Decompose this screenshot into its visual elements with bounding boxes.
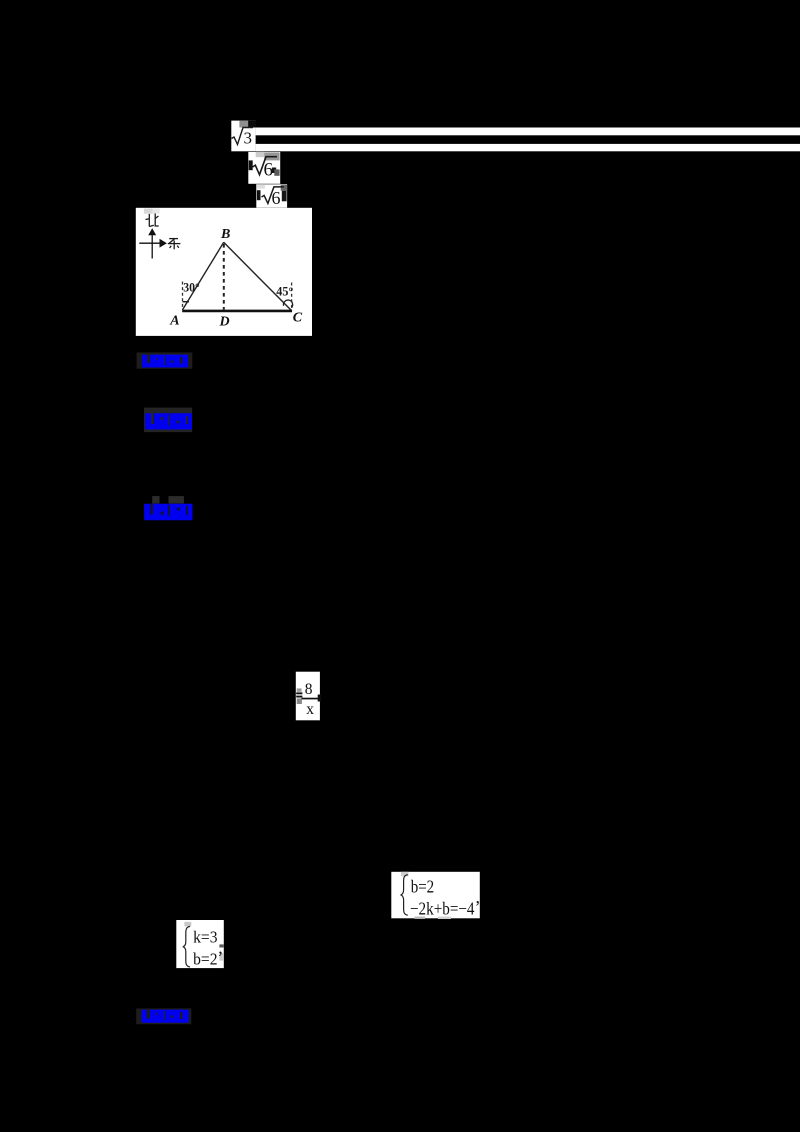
compass horizontal arrow (east) xyxy=(139,239,167,248)
angle arc at C xyxy=(283,300,292,308)
blue label 1 dianping xyxy=(137,352,193,368)
svg-text:A: A xyxy=(169,314,179,329)
compass character Bei (north) xyxy=(146,214,159,227)
svg-text:k=3: k=3 xyxy=(193,928,217,947)
triangle side BC xyxy=(224,242,292,311)
svg-text:45°: 45° xyxy=(276,284,293,298)
svg-text:,: , xyxy=(218,938,223,958)
svg-text:6: 6 xyxy=(272,188,281,208)
compass vertical arrow (north) xyxy=(148,228,156,258)
svg-text:D: D xyxy=(219,314,230,329)
svg-text:b=2: b=2 xyxy=(193,949,217,968)
formula image sqrt(6)+ white box xyxy=(248,152,280,184)
svg-text:b=2: b=2 xyxy=(411,877,435,897)
svg-text:,: , xyxy=(476,887,481,907)
angle mark at A xyxy=(183,301,190,303)
triangle side AB xyxy=(182,242,223,310)
svg-text:3: 3 xyxy=(244,129,253,148)
white strip 2 (long fraction bar) xyxy=(256,144,800,151)
formula image sqrt(6) white box (second) xyxy=(256,184,287,208)
diagram white box xyxy=(136,208,312,336)
svg-text:B: B xyxy=(220,227,230,242)
svg-text:−2k+b=−4: −2k+b=−4 xyxy=(410,898,475,918)
blue label 3 jieda xyxy=(144,496,192,520)
formula image sqrt(3) white box xyxy=(231,121,256,152)
diagram grey artifacts top xyxy=(144,209,153,214)
dashed altitude BD xyxy=(223,244,225,310)
svg-text:30°: 30° xyxy=(183,280,200,294)
white strip 1 (long fraction bar) xyxy=(256,128,800,136)
blue label 2 fenxi xyxy=(144,408,192,433)
compass character Dong (east) xyxy=(168,239,181,250)
dashed vertical (north) at C xyxy=(291,283,293,310)
system of equations k=3, b=2 white box xyxy=(176,920,224,968)
triangle base AC xyxy=(182,310,292,313)
inline formula =8/x white box xyxy=(296,672,321,721)
svg-text:6: 6 xyxy=(264,160,274,181)
system of equations b=2, -2k+b=-4 white box xyxy=(391,872,480,919)
dashed vertical (north) at A xyxy=(182,282,184,309)
blue label 4 dianping xyxy=(136,1008,191,1024)
svg-text:8: 8 xyxy=(305,681,313,698)
svg-text:x: x xyxy=(306,701,314,718)
svg-text:C: C xyxy=(293,310,303,325)
